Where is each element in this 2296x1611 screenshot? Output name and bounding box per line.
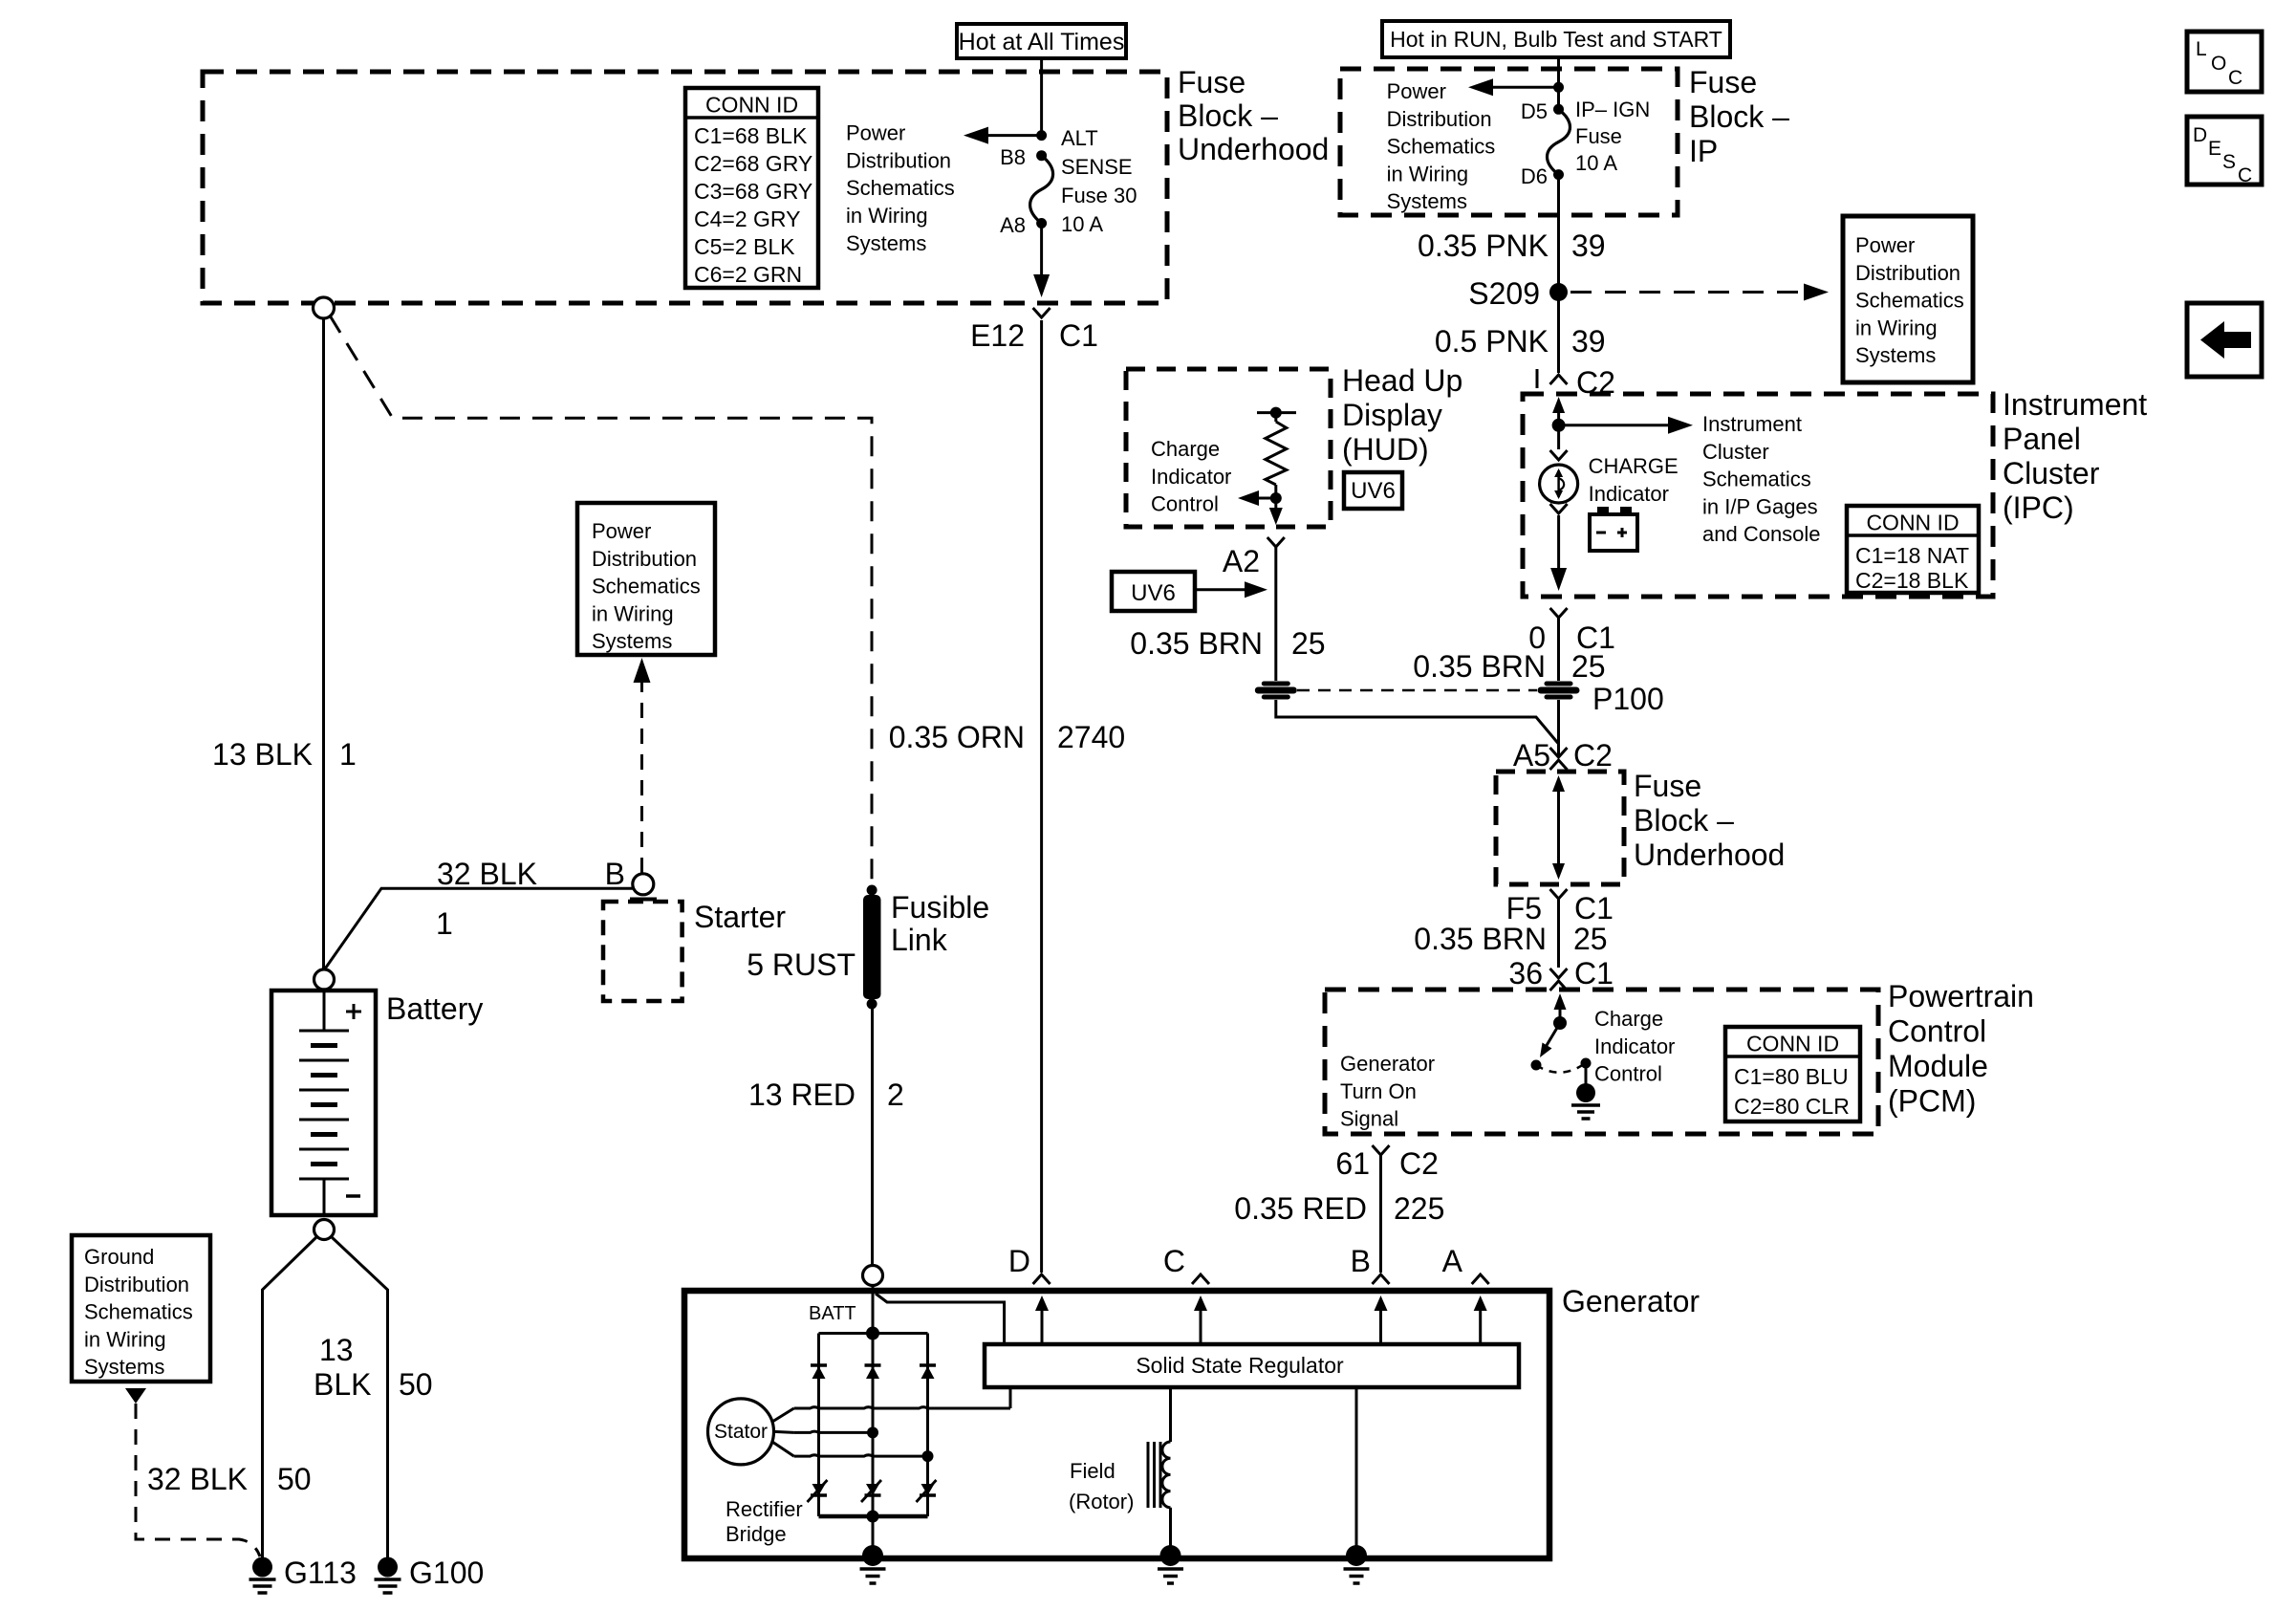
svg-text:CHARGE: CHARGE xyxy=(1589,454,1679,478)
svg-text:UV6: UV6 xyxy=(1351,478,1396,504)
svg-text:Control: Control xyxy=(1888,1014,1986,1049)
svg-text:Solid State Regulator: Solid State Regulator xyxy=(1136,1353,1344,1378)
svg-text:0.5 PNK: 0.5 PNK xyxy=(1435,324,1549,359)
terminal A xyxy=(1442,1244,1489,1344)
svg-text:Hot in RUN, Bulb Test and STAR: Hot in RUN, Bulb Test and START xyxy=(1390,27,1722,52)
svg-text:O: O xyxy=(2211,53,2226,75)
svg-text:B8: B8 xyxy=(1000,145,1026,169)
svg-text:Power: Power xyxy=(1855,233,1915,257)
svg-text:CONN ID: CONN ID xyxy=(1746,1032,1839,1056)
svg-text:Starter: Starter xyxy=(694,900,786,934)
note: Instrument Cluster Schematics in I/P Gages and Console xyxy=(1702,412,1821,546)
svg-text:C1=80 BLU: C1=80 BLU xyxy=(1734,1064,1849,1089)
svg-text:in Wiring: in Wiring xyxy=(1387,162,1469,185)
label 0.35 RED 225 xyxy=(1234,1191,1444,1226)
wire: regulator ground xyxy=(1355,1387,1358,1558)
fuse block underhood (dashed outline) xyxy=(203,72,1167,303)
svg-text:32 BLK: 32 BLK xyxy=(147,1462,248,1496)
svg-text:F5: F5 xyxy=(1506,891,1542,925)
svg-text:P100: P100 xyxy=(1592,682,1664,716)
label: Powertrain Control Module (PCM) xyxy=(1888,979,2034,1119)
wire: banner into IP fuse block xyxy=(1557,57,1560,109)
svg-text:A: A xyxy=(1442,1244,1463,1278)
svg-text:1: 1 xyxy=(436,906,453,941)
wire: P100 to A5 xyxy=(1557,700,1560,755)
terminal B xyxy=(1351,1244,1390,1344)
svg-text:25: 25 xyxy=(1571,649,1606,684)
svg-text:in Wiring: in Wiring xyxy=(1855,316,1938,339)
svg-text:Fuse: Fuse xyxy=(1689,65,1757,99)
svg-text:C6=2 GRN: C6=2 GRN xyxy=(694,262,802,287)
wire: BATT sense to regulator xyxy=(876,1294,1005,1342)
svg-text:in Wiring: in Wiring xyxy=(846,204,928,228)
node: generator BATT terminal xyxy=(863,1266,883,1286)
svg-text:C4=2 GRY: C4=2 GRY xyxy=(694,207,800,231)
CONN ID table (underhood fuse block) xyxy=(685,88,818,288)
note: Charge Indicator Control (HUD) xyxy=(1151,437,1231,516)
svg-text:E: E xyxy=(2208,138,2221,160)
battery xyxy=(271,990,376,1215)
svg-text:Stator: Stator xyxy=(714,1421,768,1443)
wire: 13 BLK 1 (battery positive) xyxy=(322,318,325,969)
svg-text:CONN ID: CONN ID xyxy=(705,93,798,118)
svg-text:2740: 2740 xyxy=(1057,720,1125,754)
svg-text:D6: D6 xyxy=(1521,164,1548,188)
label 0.35 BRN 25 (HUD) xyxy=(1130,626,1325,661)
svg-text:Fusible: Fusible xyxy=(891,890,989,925)
svg-text:Block –: Block – xyxy=(1689,99,1789,134)
svg-text:Generator: Generator xyxy=(1562,1284,1700,1318)
svg-text:Control: Control xyxy=(1151,492,1219,516)
svg-text:Powertrain: Powertrain xyxy=(1888,979,2034,1013)
svg-text:Fuse: Fuse xyxy=(1634,769,1701,803)
svg-text:Distribution: Distribution xyxy=(84,1273,189,1296)
ground G100 xyxy=(375,1556,485,1593)
LOC reference box xyxy=(2187,32,2262,92)
svg-text:Fuse: Fuse xyxy=(1178,65,1245,99)
svg-text:Fuse: Fuse xyxy=(1575,124,1622,148)
note: Power Distribution Schematics in Wiring Systems (underhood) xyxy=(846,121,955,255)
svg-text:Block –: Block – xyxy=(1634,803,1734,838)
boxed label UV6 (pointer) xyxy=(1112,572,1195,611)
svg-text:50: 50 xyxy=(399,1367,433,1402)
arrow: ground distribution pointer xyxy=(125,1388,146,1404)
svg-text:C1=18 NAT: C1=18 NAT xyxy=(1855,543,1969,568)
svg-text:A8: A8 xyxy=(1000,213,1026,237)
resistor (charge indicator control HUD) xyxy=(1257,407,1296,504)
svg-text:Block –: Block – xyxy=(1178,98,1278,133)
wire: F5 to PCM xyxy=(1557,899,1560,968)
svg-text:Schematics: Schematics xyxy=(592,575,701,599)
charge indicator gauge xyxy=(1540,450,1679,506)
powertrain control module PCM (dashed outline) xyxy=(1325,990,1878,1134)
zener diode (rectifier bottom 3) xyxy=(917,1480,937,1502)
label 32 BLK 1 (starter) xyxy=(436,857,537,941)
grommet P100 (left) xyxy=(1255,687,1297,694)
svg-text:C2=68 GRY: C2=68 GRY xyxy=(694,151,812,176)
label: Fuse Block - Underhood (small) xyxy=(1634,769,1785,872)
svg-text:32 BLK: 32 BLK xyxy=(437,857,537,891)
svg-text:Schematics: Schematics xyxy=(84,1300,193,1324)
svg-text:Charge: Charge xyxy=(1594,1007,1663,1031)
wire: IPC to P100 xyxy=(1557,618,1560,681)
splice S209 xyxy=(1468,276,1568,311)
svg-text:13: 13 xyxy=(319,1333,354,1367)
svg-text:in I/P Gages: in I/P Gages xyxy=(1702,494,1818,518)
svg-text:C: C xyxy=(2238,164,2252,186)
svg-text:Systems: Systems xyxy=(846,231,926,255)
svg-text:C3=68 GRY: C3=68 GRY xyxy=(694,179,812,204)
banner: Hot at All Times xyxy=(957,24,1126,58)
generator (outline) xyxy=(684,1291,1549,1558)
label Fusible Link xyxy=(891,890,989,957)
stator phase wire 3 xyxy=(794,1455,928,1456)
svg-text:Underhood: Underhood xyxy=(1178,132,1329,166)
svg-text:Schematics: Schematics xyxy=(1855,289,1964,313)
svg-text:A2: A2 xyxy=(1223,544,1260,578)
label 0.5 PNK 39 xyxy=(1435,324,1606,359)
CONN ID table (IPC) xyxy=(1847,506,1979,593)
svg-text:0.35 BRN: 0.35 BRN xyxy=(1414,922,1547,956)
stator xyxy=(708,1399,794,1465)
label Field (Rotor) xyxy=(1069,1459,1134,1513)
svg-text:B: B xyxy=(605,857,625,891)
svg-text:Power: Power xyxy=(846,121,905,145)
label 0.35 PNK 39 xyxy=(1418,229,1606,263)
svg-text:Instrument: Instrument xyxy=(1702,412,1802,436)
connector E12 / C1 xyxy=(970,308,1098,353)
dashed wire: 32 BLK 50 to G113 xyxy=(136,1404,260,1557)
banner: Hot in RUN, Bulb Test and START xyxy=(1382,21,1730,57)
wire: IP fuse down to S209 xyxy=(1557,175,1560,373)
DESC reference box xyxy=(2187,117,2262,186)
svg-text:C1: C1 xyxy=(1574,956,1614,991)
label 32 BLK 50 xyxy=(147,1462,312,1496)
arrow left (charge indicator control HUD) xyxy=(1238,490,1276,506)
rectifier bridge top rail xyxy=(819,1332,928,1335)
svg-text:IP– IGN: IP– IGN xyxy=(1575,98,1650,121)
arrow down to HUD edge xyxy=(1269,498,1283,525)
svg-text:C2: C2 xyxy=(1573,738,1613,773)
label 13 RED 2 xyxy=(748,1078,904,1112)
svg-text:SENSE: SENSE xyxy=(1061,155,1133,179)
fuse IP-IGN Fuse 10A xyxy=(1521,98,1650,188)
svg-text:13 RED: 13 RED xyxy=(748,1078,856,1112)
svg-text:A5: A5 xyxy=(1513,738,1550,773)
svg-text:UV6: UV6 xyxy=(1131,580,1176,606)
connector 61 / C2 xyxy=(1335,1145,1439,1181)
starter (dashed outline) xyxy=(603,900,682,1002)
svg-text:Battery: Battery xyxy=(386,991,483,1026)
ground (regulator) xyxy=(1344,1545,1370,1583)
head up display HUD (dashed outline) xyxy=(1126,369,1331,527)
svg-text:Distribution: Distribution xyxy=(592,547,697,571)
boxed label UV6 (in HUD) xyxy=(1344,472,1402,509)
svg-text:0.35 BRN: 0.35 BRN xyxy=(1130,626,1263,661)
svg-text:Distribution: Distribution xyxy=(846,148,951,172)
ground G113 xyxy=(249,1556,357,1593)
label: Head Up Display (HUD) xyxy=(1342,363,1462,467)
svg-text:Head Up: Head Up xyxy=(1342,363,1462,398)
svg-text:10 A: 10 A xyxy=(1061,212,1103,236)
svg-text:BATT: BATT xyxy=(809,1303,856,1324)
svg-text:S209: S209 xyxy=(1468,276,1540,311)
rectifier bridge columns xyxy=(817,1334,820,1517)
svg-text:Ground: Ground xyxy=(84,1245,154,1269)
svg-text:(PCM): (PCM) xyxy=(1888,1084,1976,1119)
svg-text:Cluster: Cluster xyxy=(1702,440,1769,464)
label: Fuse Block - IP xyxy=(1689,65,1789,168)
svg-text:Generator: Generator xyxy=(1340,1052,1435,1076)
svg-text:Panel: Panel xyxy=(2003,422,2081,456)
arrow up + switch (charge indicator control) inside PCM xyxy=(1531,993,1601,1119)
svg-text:IP: IP xyxy=(1689,134,1718,168)
diode (rectifier top 1) xyxy=(811,1365,827,1379)
back arrow box xyxy=(2187,303,2262,377)
zener diode (rectifier bottom 1) xyxy=(808,1480,828,1502)
wire+arrow down to IPC edge xyxy=(1550,504,1568,591)
svg-text:C1: C1 xyxy=(1574,891,1614,925)
svg-text:50: 50 xyxy=(277,1462,312,1496)
svg-text:Instrument: Instrument xyxy=(2003,387,2147,422)
svg-text:Charge: Charge xyxy=(1151,437,1220,461)
wire: 0.35 ORN 2740 down to generator D xyxy=(1040,320,1043,1273)
svg-text:61: 61 xyxy=(1335,1146,1370,1181)
grommet P100 (right) xyxy=(1538,682,1664,717)
arrow to power distribution schematics (left) xyxy=(964,127,1047,144)
svg-text:Distribution: Distribution xyxy=(1855,261,1960,285)
connector A2 xyxy=(1223,537,1285,578)
fuse block underhood small (dashed outline) xyxy=(1496,772,1624,884)
dashed line between grommets xyxy=(1297,689,1537,692)
svg-text:Power: Power xyxy=(592,519,651,543)
stator phase wire 1 (to regulator) xyxy=(794,1407,1010,1408)
CONN ID table (PCM) xyxy=(1725,1027,1860,1121)
wire: PCM to generator B xyxy=(1379,1155,1382,1273)
fusible link xyxy=(863,885,881,1010)
label: Fuse Block - Underhood xyxy=(1178,65,1329,166)
svg-text:0.35 BRN: 0.35 BRN xyxy=(1413,649,1546,684)
svg-text:10 A: 10 A xyxy=(1575,151,1617,175)
box: Power Distribution Schematics in Wiring Systems (right) xyxy=(1843,216,1973,382)
fuse ALT SENSE Fuse 30 10A xyxy=(1000,126,1137,237)
terminal D xyxy=(1008,1244,1051,1344)
svg-text:(Rotor): (Rotor) xyxy=(1069,1490,1134,1513)
connector F5 / C1 xyxy=(1506,889,1614,925)
wire: 13 RED 2 fusible link to generator BATT xyxy=(871,1004,874,1266)
instrument panel cluster IPC (dashed outline) xyxy=(1523,394,1993,597)
field rotor coil xyxy=(1148,1387,1171,1558)
svg-text:Systems: Systems xyxy=(1855,343,1936,367)
svg-text:(HUD): (HUD) xyxy=(1342,432,1429,467)
svg-text:C2=80 CLR: C2=80 CLR xyxy=(1734,1094,1850,1119)
wire+arrow up inside IPC xyxy=(1552,397,1566,449)
fuse block IP (dashed outline) xyxy=(1340,69,1678,215)
svg-text:ALT: ALT xyxy=(1061,126,1098,150)
svg-text:Distribution: Distribution xyxy=(1387,107,1492,131)
svg-text:Underhood: Underhood xyxy=(1634,838,1785,872)
svg-text:CONN ID: CONN ID xyxy=(1866,511,1959,535)
svg-text:13 BLK: 13 BLK xyxy=(212,737,313,772)
wire with arrows inside small fuse block xyxy=(1552,775,1565,880)
svg-text:D: D xyxy=(1008,1244,1030,1278)
svg-text:Rectifier: Rectifier xyxy=(726,1497,803,1521)
svg-text:0.35 ORN: 0.35 ORN xyxy=(889,720,1025,754)
svg-text:L: L xyxy=(2196,38,2207,60)
svg-text:Systems: Systems xyxy=(1387,189,1467,213)
wire: A2 to P100 xyxy=(1274,547,1277,681)
wire: 32 BLK 1 battery to starter xyxy=(325,888,634,969)
node: battery positive terminal xyxy=(314,969,335,990)
svg-text:Fuse 30: Fuse 30 xyxy=(1061,184,1137,207)
diode (rectifier top 2) xyxy=(865,1365,881,1379)
node: battery negative terminal xyxy=(314,1220,335,1240)
svg-text:Link: Link xyxy=(891,923,948,957)
diode (rectifier top 3) xyxy=(920,1365,936,1379)
note: Charge Indicator Control (PCM) xyxy=(1594,1007,1675,1086)
zener diode (rectifier bottom 2) xyxy=(861,1480,881,1502)
svg-text:Indicator: Indicator xyxy=(1151,465,1231,489)
wire: BATT into rectifier xyxy=(872,1286,875,1334)
svg-text:0.35 RED: 0.35 RED xyxy=(1234,1191,1367,1226)
arrow to power distribution schematics (IP, left) xyxy=(1468,78,1564,96)
svg-text:Signal: Signal xyxy=(1340,1107,1398,1131)
svg-text:39: 39 xyxy=(1571,324,1606,359)
label 13 BLK 1 xyxy=(212,737,357,772)
svg-text:Schematics: Schematics xyxy=(846,176,955,200)
wire: HUD branch to A5 xyxy=(1276,700,1559,744)
svg-text:225: 225 xyxy=(1394,1191,1444,1226)
svg-text:Cluster: Cluster xyxy=(2003,456,2100,490)
svg-text:(IPC): (IPC) xyxy=(2003,490,2074,525)
svg-text:C1: C1 xyxy=(1059,318,1098,353)
terminal C xyxy=(1163,1244,1209,1344)
svg-text:Schematics: Schematics xyxy=(1387,135,1496,159)
stator phase wire 2 xyxy=(794,1431,873,1432)
svg-text:D5: D5 xyxy=(1521,99,1548,123)
svg-text:B: B xyxy=(1351,1244,1371,1278)
svg-text:39: 39 xyxy=(1571,229,1606,263)
svg-text:E12: E12 xyxy=(970,318,1025,353)
label 0.35 BRN 25 (lower) xyxy=(1414,922,1607,956)
connector C2 into IPC xyxy=(1537,365,1615,400)
svg-text:Module: Module xyxy=(1888,1049,1988,1083)
svg-text:Indicator: Indicator xyxy=(1594,1034,1675,1058)
svg-text:and Console: and Console xyxy=(1702,522,1821,546)
svg-text:C: C xyxy=(2228,67,2242,89)
svg-text:C: C xyxy=(1163,1244,1185,1278)
wire: banner to ALT SENSE fuse xyxy=(1040,58,1043,136)
svg-text:C5=2 BLK: C5=2 BLK xyxy=(694,234,795,259)
svg-text:Power: Power xyxy=(1387,79,1446,103)
svg-text:C2=18 BLK: C2=18 BLK xyxy=(1855,568,1969,593)
solid state regulator xyxy=(985,1344,1519,1387)
svg-text:Indicator: Indicator xyxy=(1589,482,1669,506)
wire+arrow: fuse output to box edge xyxy=(1033,224,1050,298)
svg-text:Systems: Systems xyxy=(592,629,672,653)
note: Generator Turn On Signal xyxy=(1340,1052,1435,1131)
battery icon (charge indicator) xyxy=(1590,507,1637,551)
box: Power Distribution Schematics in Wiring Systems (starter) xyxy=(577,503,715,655)
wires: battery negative fan-out to grounds xyxy=(263,1237,317,1557)
svg-text:Bridge: Bridge xyxy=(726,1522,787,1546)
svg-text:25: 25 xyxy=(1291,626,1326,661)
svg-text:D: D xyxy=(2193,124,2207,146)
svg-text:25: 25 xyxy=(1573,922,1608,956)
connector 0 / C1 below IPC xyxy=(1528,608,1615,655)
label: Instrument Panel Cluster (IPC) xyxy=(2003,387,2147,525)
svg-text:Field: Field xyxy=(1070,1459,1116,1483)
svg-text:Display: Display xyxy=(1342,398,1442,432)
svg-text:in Wiring: in Wiring xyxy=(84,1327,166,1351)
connector A5 / C2 xyxy=(1513,738,1613,773)
box: Ground Distribution Schematics in Wiring Systems xyxy=(72,1235,210,1382)
ground (rectifier) xyxy=(860,1545,886,1583)
svg-text:G100: G100 xyxy=(409,1556,484,1590)
label 13 BLK 50 xyxy=(314,1333,433,1402)
svg-text:Turn On: Turn On xyxy=(1340,1079,1417,1103)
svg-text:BLK: BLK xyxy=(314,1367,371,1402)
arrow to instrument cluster schematics xyxy=(1559,417,1693,434)
arrow: UV6 to wire xyxy=(1195,581,1267,598)
wire: regulator to phase line xyxy=(1009,1387,1012,1408)
svg-text:G113: G113 xyxy=(284,1556,357,1590)
connector 36 / C1 xyxy=(1508,956,1614,991)
svg-text:0.35 PNK: 0.35 PNK xyxy=(1418,229,1549,263)
node: starter B terminal xyxy=(633,874,654,895)
rectifier bridge bottom rail xyxy=(819,1514,928,1519)
dashed arrow: S209 to power distribution schematics box xyxy=(1570,284,1829,301)
svg-text:C1=68 BLK: C1=68 BLK xyxy=(694,123,808,148)
svg-text:C2: C2 xyxy=(1399,1146,1439,1181)
dashed run: fuse block to fusible link xyxy=(330,316,872,885)
svg-text:36: 36 xyxy=(1508,956,1543,991)
svg-text:2: 2 xyxy=(887,1078,904,1112)
ground (field) xyxy=(1158,1545,1183,1583)
svg-text:Hot at All Times: Hot at All Times xyxy=(959,29,1125,55)
svg-text:S: S xyxy=(2222,151,2236,173)
label Rectifier Bridge xyxy=(726,1497,803,1546)
note: Power Distribution Schematics in Wiring Systems (IP) xyxy=(1387,79,1496,213)
node: junction circle on fuse block edge xyxy=(314,297,335,318)
svg-text:in Wiring: in Wiring xyxy=(592,601,674,625)
svg-text:Systems: Systems xyxy=(84,1355,164,1379)
label 0.35 BRN 25 (right) xyxy=(1413,649,1605,684)
svg-text:5 RUST: 5 RUST xyxy=(747,947,856,982)
svg-text:1: 1 xyxy=(339,737,357,772)
dashed arrow: starter B to power distribution xyxy=(634,658,651,873)
svg-text:Schematics: Schematics xyxy=(1702,468,1811,491)
svg-text:Control: Control xyxy=(1594,1062,1662,1086)
label 0.35 ORN 2740 xyxy=(889,720,1125,754)
